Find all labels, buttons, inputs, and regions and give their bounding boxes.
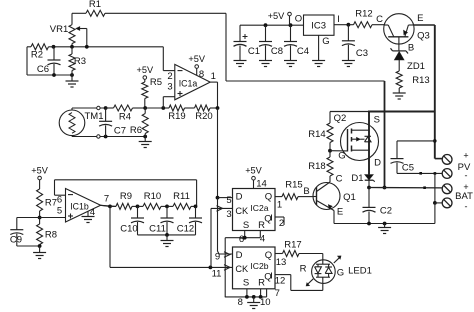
- +5V supply R5: [136, 65, 153, 82]
- svg-text:LED1: LED1: [348, 266, 372, 277]
- wire battery-sense top wire to R1: [72, 13, 385, 81]
- svg-text:CK: CK: [235, 206, 249, 216]
- svg-text:R: R: [300, 264, 307, 275]
- wire IC2a Q pin1: [275, 197, 282, 211]
- svg-text:Q: Q: [265, 250, 272, 261]
- ground R6: [139, 137, 152, 148]
- svg-text:R3: R3: [74, 56, 86, 67]
- wire IC2a D pin5: [218, 195, 233, 206]
- wire IC1b feedback: [55, 180, 197, 207]
- svg-text:+5V: +5V: [268, 11, 285, 21]
- led LED1: [312, 260, 336, 284]
- flip-flop IC2a: [233, 189, 276, 232]
- wire R2-C6 left branch: [27, 47, 74, 77]
- wire IC2a S R to ground: [225, 231, 265, 297]
- terminal PV+ lead: [435, 158, 443, 160]
- wire BAT+ line: [367, 186, 442, 190]
- ground IC3: [312, 61, 325, 67]
- svg-text:C5: C5: [402, 163, 414, 174]
- ground IC2b: [247, 297, 260, 309]
- ground C8: [259, 61, 272, 67]
- svg-text:R11: R11: [173, 191, 190, 202]
- svg-text:VR1: VR1: [50, 24, 68, 35]
- resistor R12: [348, 9, 384, 28]
- svg-text:C9: C9: [10, 235, 22, 246]
- resistor R8: [37, 218, 57, 247]
- op-amp IC1b: [66, 189, 101, 223]
- svg-text:C8: C8: [271, 46, 283, 57]
- Q1 labels: [303, 174, 356, 218]
- svg-text:R19: R19: [168, 111, 185, 122]
- svg-text:7: 7: [104, 194, 109, 205]
- capacitor C7: [99, 108, 126, 137]
- svg-text:R10: R10: [144, 191, 161, 202]
- svg-text:C4: C4: [297, 46, 309, 57]
- svg-text:C3: C3: [356, 48, 368, 59]
- wire IC1b output: [101, 205, 116, 209]
- resistor R10: [138, 191, 168, 209]
- ground C3: [342, 61, 355, 67]
- ground R8: [33, 246, 46, 259]
- resistor R6: [130, 108, 148, 137]
- regulator IC3: [295, 14, 340, 48]
- svg-text:R6: R6: [130, 125, 142, 136]
- svg-text:Q1: Q1: [343, 192, 356, 203]
- svg-text:Q: Q: [264, 214, 271, 225]
- node R4-R5-R6: [143, 106, 165, 110]
- svg-text:O: O: [295, 14, 302, 25]
- svg-text:I: I: [337, 14, 340, 25]
- svg-text:R9: R9: [120, 191, 132, 202]
- ground C1: [234, 61, 247, 67]
- svg-text:R18: R18: [308, 161, 325, 172]
- resistor R14: [308, 123, 333, 143]
- svg-text:8: 8: [238, 297, 243, 308]
- svg-text:+5V: +5V: [245, 166, 262, 176]
- capacitor C6: [37, 47, 61, 75]
- svg-text:S: S: [243, 220, 249, 231]
- capacitor C5: [391, 141, 415, 174]
- svg-text:G: G: [337, 268, 344, 279]
- node C11: [165, 205, 169, 209]
- capacitor C4: [284, 25, 309, 60]
- svg-text:4: 4: [260, 234, 265, 245]
- svg-text:BAT: BAT: [455, 191, 473, 202]
- svg-text:B: B: [408, 43, 414, 54]
- svg-text:C10: C10: [120, 224, 137, 235]
- svg-text:C11: C11: [149, 224, 166, 235]
- resistor R20: [195, 105, 220, 122]
- wire IC3 input: [334, 23, 350, 27]
- resistor R5: [142, 77, 162, 108]
- capacitor C8: [259, 25, 283, 60]
- svg-text:Q: Q: [265, 192, 272, 203]
- svg-text:G: G: [338, 151, 345, 162]
- resistor R1: [86, 0, 105, 16]
- wire battery sense rail: [384, 81, 386, 188]
- capacitor C11: [149, 206, 173, 235]
- svg-text:IC1a: IC1a: [179, 79, 198, 89]
- wire PV- line: [397, 172, 442, 175]
- svg-text:-: -: [465, 202, 468, 212]
- svg-text:Q3: Q3: [417, 31, 430, 42]
- svg-text:R12: R12: [355, 9, 372, 20]
- wire PV- to BAT- vertical: [434, 173, 436, 203]
- svg-text:D: D: [236, 250, 243, 261]
- svg-text:13: 13: [276, 257, 287, 268]
- svg-text:R2: R2: [31, 50, 43, 61]
- svg-text:TM1: TM1: [85, 111, 104, 122]
- capacitor C9: [10, 218, 40, 247]
- svg-text:14: 14: [256, 179, 267, 190]
- wire BAT- lead: [433, 201, 442, 205]
- svg-text:C7: C7: [114, 126, 126, 137]
- wire TM1 bottom: [72, 135, 147, 139]
- resistor R15: [282, 180, 313, 200]
- IC1b pin labels: [57, 194, 109, 219]
- svg-text:G: G: [322, 36, 329, 47]
- svg-text:R13: R13: [412, 75, 429, 86]
- resistor R17: [283, 240, 323, 261]
- terminal PV+: [442, 151, 468, 165]
- svg-text:E: E: [337, 207, 343, 218]
- svg-text:3: 3: [167, 82, 172, 93]
- pin 3 label: [167, 82, 172, 93]
- ground R13: [393, 93, 406, 99]
- zener diode ZD1: [391, 48, 425, 72]
- ground IC1b pin4: [82, 211, 95, 222]
- wire IC2b CK pin11: [212, 265, 230, 280]
- wire filter caps bottom: [138, 233, 196, 237]
- resistor R3: [69, 47, 86, 75]
- resistor R2: [27, 44, 54, 61]
- transistor Q1: [313, 176, 341, 224]
- svg-text:6: 6: [57, 195, 62, 206]
- potentiometer VR1: [50, 13, 87, 47]
- +5V supply IC1a pin8: [188, 54, 205, 80]
- node C12: [194, 205, 198, 209]
- wire IC1b output to clocks: [110, 206, 233, 269]
- thermistor TM1: [59, 110, 103, 136]
- +5V supply rail pin: [268, 11, 292, 25]
- +5V supply R7: [31, 166, 48, 190]
- LED1 labels: [300, 264, 372, 279]
- wire C9-R8 bottom: [17, 244, 42, 248]
- diode D1: [351, 173, 374, 188]
- svg-text:IC2a: IC2a: [250, 203, 268, 213]
- wire IC1a inverting input: [163, 47, 175, 71]
- wire R14 top stub: [329, 112, 331, 124]
- wire IC1a non-inverting input: [163, 97, 175, 108]
- svg-text:C12: C12: [177, 224, 194, 235]
- svg-text:1: 1: [277, 200, 282, 211]
- svg-text:D1: D1: [351, 173, 363, 184]
- svg-text:-: -: [465, 171, 468, 181]
- svg-text:C6: C6: [37, 64, 49, 75]
- svg-text:R8: R8: [45, 230, 57, 241]
- resistor R11: [167, 191, 197, 209]
- svg-text:R4: R4: [119, 112, 131, 123]
- svg-text:ZD1: ZD1: [407, 61, 425, 72]
- node line inverting-divider: [52, 45, 164, 49]
- LED1 arrows: [306, 256, 341, 286]
- wire source line: [330, 111, 435, 113]
- +5V supply IC2a pin14: [245, 166, 267, 190]
- wire IC2b Qbar pin12: [275, 275, 323, 291]
- ground filter: [161, 235, 174, 247]
- svg-text:E: E: [417, 13, 423, 24]
- wire IC1a output to D inputs: [216, 108, 233, 254]
- capacitor C2: [363, 188, 393, 224]
- svg-text:12: 12: [275, 276, 286, 287]
- svg-text:10: 10: [260, 297, 271, 308]
- svg-text:C1: C1: [248, 46, 260, 57]
- wire IC2b S R gnd pins: [225, 288, 280, 308]
- wire IC2b Q pin13: [275, 254, 286, 269]
- node C10: [136, 205, 140, 209]
- +5V rail: [240, 23, 304, 27]
- node gate: [328, 143, 332, 158]
- wire IC2a CK pin3: [211, 206, 233, 220]
- wire C5 top line: [397, 139, 437, 143]
- svg-text:Q: Q: [264, 272, 271, 283]
- svg-text:R14: R14: [308, 129, 325, 140]
- svg-text:+5V: +5V: [31, 166, 48, 176]
- svg-text:IC3: IC3: [311, 21, 326, 32]
- ground R3: [66, 75, 79, 87]
- flip-flop IC2b: [233, 247, 276, 289]
- svg-text:6: 6: [239, 234, 244, 245]
- resistor R7: [37, 189, 57, 218]
- svg-text:CK: CK: [235, 264, 249, 274]
- svg-text:B: B: [303, 186, 309, 197]
- terminal PV-: [442, 162, 471, 181]
- wire ground line bottom-right: [334, 203, 435, 226]
- wire IC1a output: [210, 71, 217, 108]
- svg-text:5: 5: [226, 195, 231, 206]
- svg-text:7: 7: [275, 288, 280, 299]
- svg-text:S: S: [243, 278, 249, 289]
- svg-text:R5: R5: [150, 77, 162, 88]
- svg-text:+: +: [463, 151, 468, 161]
- wire IC2b D pin9: [215, 252, 230, 263]
- mosfet Q2: [330, 112, 379, 175]
- node R7-R8: [38, 216, 66, 220]
- svg-text:1: 1: [211, 71, 216, 82]
- resistor R9: [110, 191, 138, 209]
- svg-text:S: S: [374, 115, 380, 126]
- svg-text:IC1b: IC1b: [70, 202, 89, 212]
- terminal BAT-: [442, 191, 473, 212]
- svg-text:R15: R15: [285, 180, 302, 191]
- svg-text:R7: R7: [45, 198, 57, 209]
- svg-text:C: C: [376, 14, 383, 25]
- svg-text:C: C: [336, 174, 343, 185]
- ground BAT-: [378, 224, 391, 234]
- svg-text:D: D: [236, 192, 243, 203]
- svg-text:+5V: +5V: [136, 65, 153, 75]
- svg-text:IC2b: IC2b: [250, 261, 268, 271]
- resistor R19: [163, 105, 194, 122]
- capacitor C1: [234, 25, 261, 60]
- svg-text:3: 3: [226, 209, 231, 220]
- resistor R4: [106, 105, 146, 123]
- svg-text:9: 9: [215, 252, 220, 263]
- capacitor C10: [120, 206, 144, 235]
- wire IC2a Qbar pin2: [275, 217, 284, 229]
- wire Q3 emitter rail: [414, 25, 435, 159]
- transistor Q3: [384, 14, 414, 51]
- svg-text:C2: C2: [380, 206, 392, 217]
- svg-text:Q2: Q2: [334, 113, 347, 124]
- svg-text:R: R: [258, 278, 265, 289]
- svg-text:D: D: [374, 158, 381, 169]
- svg-text:R17: R17: [284, 240, 301, 251]
- op-amp IC1a: [175, 64, 210, 99]
- svg-text:5: 5: [57, 206, 62, 217]
- svg-text:R20: R20: [195, 111, 212, 122]
- capacitor C12: [177, 206, 202, 235]
- svg-text:+5V: +5V: [188, 54, 205, 64]
- Q3 labels: [376, 13, 430, 54]
- svg-text:R1: R1: [89, 0, 101, 10]
- pin 2 label: [167, 71, 172, 82]
- svg-text:11: 11: [212, 269, 222, 280]
- capacitor C3: [342, 25, 368, 61]
- svg-text:2: 2: [279, 218, 284, 229]
- resistor R18: [308, 157, 333, 176]
- wire IC3 ground pin: [318, 35, 320, 60]
- wire TM1 top: [72, 106, 108, 110]
- resistor R13: [396, 71, 430, 93]
- svg-text:R: R: [258, 220, 265, 231]
- terminal BAT+: [442, 182, 468, 194]
- ground C4: [284, 61, 297, 67]
- svg-text:2: 2: [167, 71, 172, 82]
- Q2 labels: [334, 113, 381, 169]
- svg-text:8: 8: [199, 69, 204, 80]
